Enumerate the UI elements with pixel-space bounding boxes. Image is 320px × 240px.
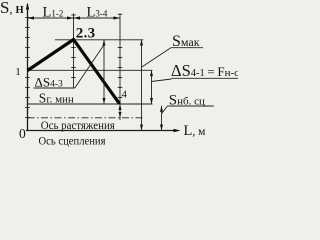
svg-text:2.3: 2.3 (76, 26, 96, 42)
svg-text:L, м: L, м (184, 123, 207, 139)
svg-text:Sнб. сц: Sнб. сц (169, 92, 205, 108)
svg-text:4: 4 (122, 90, 128, 101)
svg-text:0: 0 (19, 126, 26, 141)
svg-text:Sг. мин: Sг. мин (39, 90, 74, 105)
svg-text:Ось сцепления: Ось сцепления (39, 133, 106, 147)
svg-text:1: 1 (15, 66, 20, 78)
svg-text:Sмак: Sмак (172, 33, 200, 50)
svg-text:Ось растяжения: Ось растяжения (41, 118, 115, 132)
